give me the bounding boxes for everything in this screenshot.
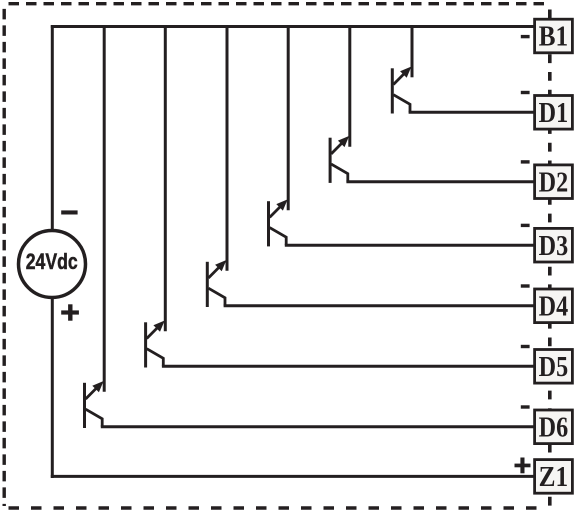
polarity minus at terminal B1 — [521, 35, 530, 38]
svg-text:D3: D3 — [539, 230, 569, 262]
wire: Q2 emitter to terminal D2 — [346, 180, 536, 183]
wire: Q5 emitter to terminal D5 — [162, 365, 536, 368]
terminal Z1 — [535, 460, 573, 494]
enclosure dashed border: left edge — [2, 9, 5, 506]
svg-text:D2: D2 — [539, 166, 569, 198]
transistor Q6 (NPN) — [85, 381, 104, 428]
wire: positive return to terminal Z1 — [51, 475, 536, 478]
wire: collector drop from bus to Q6 — [103, 25, 106, 392]
wire: collector drop from bus to Q5 — [164, 25, 167, 331]
polarity minus at terminal D2 — [521, 160, 530, 163]
transistor Q3 (NPN) — [269, 199, 288, 246]
wire: collector drop from bus to Q1 — [411, 25, 414, 77]
wire: V1 negative lead up to bus — [51, 25, 54, 231]
polarity minus at terminal D5 — [521, 345, 530, 348]
terminal D2 — [535, 165, 573, 199]
svg-text:24Vdc: 24Vdc — [26, 249, 78, 274]
enclosure dashed border: bottom edge — [9, 506, 544, 509]
transistor Q4 (NPN) — [207, 260, 226, 307]
svg-text:D4: D4 — [539, 291, 569, 323]
svg-text:B1: B1 — [539, 21, 569, 53]
polarity minus at terminal D3 — [521, 224, 530, 227]
wire: Q1 emitter to terminal D1 — [409, 111, 536, 114]
wire: Q4 emitter to terminal D4 — [224, 304, 536, 307]
svg-text:D6: D6 — [539, 412, 569, 444]
wire: collector drop from bus to Q4 — [226, 25, 229, 271]
svg-text:D5: D5 — [539, 351, 569, 383]
polarity minus at terminal D6 — [521, 405, 530, 408]
terminal B1 — [535, 19, 573, 53]
polarity plus at terminal Z1 — [515, 458, 531, 474]
V1 plus polarity mark — [61, 304, 79, 320]
wire: top negative bus from V1 to terminal B1 — [51, 25, 536, 28]
enclosure dashed border: top edge — [9, 2, 551, 5]
enclosure dashed border: right edge stub above terminal B1 — [548, 10, 552, 20]
transistor Q5 (NPN) — [146, 321, 165, 368]
polarity minus at terminal D1 — [521, 91, 530, 94]
svg-text:D1: D1 — [539, 97, 569, 129]
terminal D4 — [535, 289, 573, 323]
wire: Q3 emitter to terminal D3 — [285, 244, 536, 247]
enclosure dashed border: right edge / terminal strip dashed line — [548, 54, 552, 506]
terminal D3 — [535, 228, 573, 262]
terminal D6 — [535, 410, 573, 444]
terminal D1 — [535, 96, 573, 130]
wire: V1 positive lead down — [51, 297, 54, 478]
transistor Q1 (NPN) — [392, 67, 411, 114]
V1 minus polarity mark — [61, 210, 77, 214]
svg-text:Z1: Z1 — [539, 461, 569, 493]
wire: Q6 emitter to terminal D6 — [101, 425, 536, 428]
voltage source V1: 24Vdc circle — [19, 231, 86, 298]
transistor Q2 (NPN) — [330, 136, 349, 183]
wire: collector drop from bus to Q3 — [287, 25, 290, 210]
wire: collector drop from bus to Q2 — [348, 25, 351, 147]
polarity minus at terminal D4 — [521, 284, 530, 287]
terminal D5 — [535, 350, 573, 384]
